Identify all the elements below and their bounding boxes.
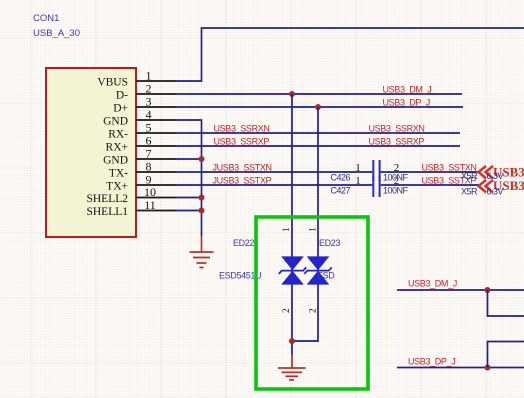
svg-text:D+: D+: [113, 103, 128, 115]
port chevron USB3_SSTXN: [479, 166, 494, 178]
pin 6 (RX+): [106, 134, 176, 154]
svg-text:USB3_SSRXN: USB3_SSRXN: [369, 124, 425, 134]
svg-text:USB3_DM_J: USB3_DM_J: [408, 279, 457, 289]
svg-text:TX+: TX+: [106, 181, 128, 193]
svg-text:X5R: X5R: [461, 187, 478, 197]
svg-text:2: 2: [146, 82, 152, 96]
pin 8 (TX-): [109, 160, 176, 180]
pin 2 (D-): [116, 82, 176, 102]
svg-text:TX-: TX-: [109, 168, 128, 180]
svg-text:USB3_DM_J: USB3_DM_J: [383, 85, 432, 95]
pin 3 (D+): [113, 95, 176, 115]
svg-text:3: 3: [146, 95, 152, 109]
wire TX+ after C427 (USB3_SSTXP): [381, 184, 479, 186]
svg-text:2: 2: [282, 308, 292, 313]
svg-text:1: 1: [146, 69, 152, 83]
TVS diode ED23: [304, 256, 331, 284]
wire ED23 column: [292, 107, 318, 341]
junction D- / ED22 column: [289, 91, 295, 97]
svg-text:8: 8: [146, 160, 152, 174]
wire USB3_DP_J stub (bottom right): [397, 367, 524, 369]
wire pin7 GND to bus: [176, 158, 202, 160]
svg-text:D-: D-: [116, 90, 128, 102]
svg-text:USB3_DP_J: USB3_DP_J: [383, 98, 430, 108]
svg-text:1: 1: [355, 162, 361, 174]
svg-text:4: 4: [146, 108, 152, 122]
svg-text:USB3_SSRXP: USB3_SSRXP: [369, 137, 425, 147]
svg-text:6.3V: 6.3V: [487, 187, 504, 197]
junction USB3_DP_J branch: [485, 365, 491, 371]
svg-text:VBUS: VBUS: [97, 77, 128, 89]
wire D- net USB3_DM_J: [176, 93, 462, 95]
svg-text:X5R: X5R: [461, 171, 478, 181]
pin 10 (SHELL2): [86, 185, 176, 205]
svg-text:GND: GND: [103, 116, 128, 128]
pin 5 (RX-): [108, 121, 176, 141]
wire RX- net USB3_SSRXN: [176, 132, 460, 134]
junction GND bus pin7: [199, 156, 205, 162]
wire pin10 SHELL2 to bus: [176, 197, 202, 199]
svg-text:C427: C427: [331, 186, 351, 196]
junction D+ / ED23 column: [315, 104, 321, 110]
svg-text:SHELL2: SHELL2: [86, 193, 128, 205]
TVS diode ED22: [279, 256, 306, 284]
wire USB3_DM_J stub (bottom right): [397, 289, 524, 291]
pin 9 (TX+): [106, 173, 176, 193]
svg-text:RX-: RX-: [108, 129, 128, 141]
svg-text:ESD: ESD: [317, 271, 335, 281]
ground symbol GND2: [278, 355, 306, 380]
pin 7 (GND): [103, 147, 176, 167]
ground symbol GND1: [190, 236, 214, 268]
svg-text:USB3_SSRXP: USB3_SSRXP: [214, 137, 270, 147]
pin 1 (VBUS): [97, 69, 176, 89]
junction USB3_DM_J branch: [485, 287, 491, 293]
capacitor C427 plates: [372, 176, 380, 197]
svg-text:6: 6: [146, 134, 152, 148]
svg-text:1: 1: [282, 227, 292, 232]
svg-text:ED22: ED22: [233, 238, 254, 248]
svg-text:10: 10: [144, 185, 156, 199]
svg-text:JUSB3_SSTXP: JUSB3_SSTXP: [213, 176, 272, 186]
capacitor C426 plates: [372, 160, 380, 181]
svg-text:100NF: 100NF: [383, 173, 409, 183]
pin 11 (SHELL1): [86, 198, 176, 218]
wire TX- after C426 (USB3_SSTXN): [381, 171, 479, 173]
svg-text:USB3_DP_J: USB3_DP_J: [408, 357, 455, 367]
svg-text:ED23: ED23: [319, 238, 340, 248]
highlight box (green selection rectangle): [256, 217, 368, 389]
connector CON1 body: [46, 68, 136, 237]
wire DP branch up to edge: [488, 342, 524, 368]
svg-text:JUSB3_SSTXN: JUSB3_SSTXN: [213, 163, 272, 173]
svg-text:CON1: CON1: [33, 13, 59, 24]
svg-text:7: 7: [146, 147, 152, 161]
svg-text:GND: GND: [103, 155, 128, 167]
junction GND bus pin10: [199, 195, 205, 201]
svg-text:1: 1: [308, 227, 318, 232]
wire RX+ net USB3_SSRXP: [176, 145, 460, 147]
svg-text:100NF: 100NF: [383, 186, 409, 196]
svg-text:2: 2: [308, 308, 318, 313]
wire TX+ to C427: [176, 184, 372, 186]
svg-text:1: 1: [355, 175, 361, 187]
wire DM branch down to edge: [488, 290, 524, 316]
svg-text:USB_A_30: USB_A_30: [33, 28, 80, 39]
wire VBUS pin1 to top rail: [176, 28, 524, 81]
svg-text:6.3V: 6.3V: [487, 171, 504, 181]
svg-text:SHELL1: SHELL1: [86, 206, 128, 218]
svg-text:11: 11: [144, 198, 156, 212]
svg-text:USB3_SSRXN: USB3_SSRXN: [214, 124, 270, 134]
junction ESD columns to ground: [289, 338, 295, 344]
svg-text:C426: C426: [331, 173, 351, 183]
wire GND bus from pin4: [176, 120, 202, 236]
pin 4 (GND): [103, 108, 176, 128]
wire pin11 SHELL1 to bus: [176, 210, 202, 212]
wire TX- to C426: [176, 171, 372, 173]
junction GND bus pin11: [199, 208, 205, 214]
svg-text:RX+: RX+: [106, 142, 128, 154]
svg-text:5: 5: [146, 121, 152, 135]
wire D+ net USB3_DP_J: [176, 106, 463, 108]
wire ED22 column: [291, 94, 293, 355]
port chevron USB3_SSTXP: [479, 180, 494, 192]
